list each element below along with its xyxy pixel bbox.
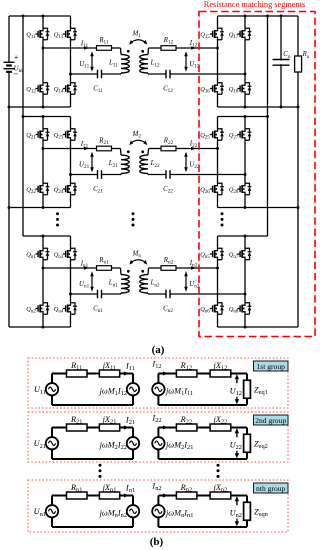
svg-text:Mn: Mn <box>132 250 142 259</box>
svg-text:Ln2: Ln2 <box>150 280 160 289</box>
svg-text:U11: U11 <box>34 385 46 396</box>
svg-text:nth group: nth group <box>256 484 286 493</box>
svg-text:U11: U11 <box>79 61 89 70</box>
svg-text:C21: C21 <box>93 186 103 195</box>
svg-text:Cn2: Cn2 <box>163 306 173 315</box>
svg-text:In2: In2 <box>151 482 161 493</box>
svg-text:Qn7: Qn7 <box>229 251 239 260</box>
svg-text:Q12: Q12 <box>26 86 36 95</box>
svg-text:I21: I21 <box>125 416 135 427</box>
svg-text:Zeqn: Zeqn <box>254 507 269 518</box>
svg-text:+: + <box>14 53 18 62</box>
svg-text:2nd group: 2nd group <box>255 416 286 425</box>
svg-text:Un2: Un2 <box>230 508 242 519</box>
svg-text:(b): (b) <box>150 536 164 548</box>
svg-text:Rn2: Rn2 <box>163 257 174 266</box>
svg-text:Co: Co <box>283 51 291 60</box>
svg-text:L11: L11 <box>108 60 118 69</box>
svg-text:M1: M1 <box>132 30 142 39</box>
svg-text:Q13: Q13 <box>54 31 64 40</box>
svg-text:In1: In1 <box>125 484 135 495</box>
svg-text:M2: M2 <box>132 131 142 140</box>
svg-text:Q26: Q26 <box>200 186 210 195</box>
svg-text:jωM2I21: jωM2I21 <box>165 440 193 451</box>
svg-text:jωM2I22: jωM2I22 <box>99 440 127 451</box>
svg-text:L12: L12 <box>150 60 160 69</box>
svg-text:U21: U21 <box>34 439 46 450</box>
svg-text:U21: U21 <box>79 162 90 171</box>
svg-text:I11: I11 <box>125 362 135 373</box>
svg-text:Q25: Q25 <box>200 132 210 141</box>
svg-text:jωMnIn2: jωMnIn2 <box>99 508 127 519</box>
svg-text:Qn8: Qn8 <box>229 306 239 315</box>
svg-text:U12: U12 <box>230 386 242 397</box>
svg-text:L22: L22 <box>150 160 160 169</box>
svg-text:R22: R22 <box>163 138 174 147</box>
svg-text:I12: I12 <box>151 360 161 371</box>
svg-text:Q14: Q14 <box>54 86 64 95</box>
svg-text:Q16: Q16 <box>200 86 210 95</box>
svg-text:Q22: Q22 <box>26 186 36 195</box>
svg-text:Rn1: Rn1 <box>98 257 109 266</box>
svg-text:Q18: Q18 <box>229 86 239 95</box>
svg-text:Q17: Q17 <box>229 31 239 40</box>
svg-text:Q27: Q27 <box>229 132 239 141</box>
svg-text:Q24: Q24 <box>54 186 64 195</box>
svg-text:Qn3: Qn3 <box>54 251 64 260</box>
svg-text:C11: C11 <box>93 86 103 95</box>
svg-text:Q11: Q11 <box>26 31 36 40</box>
svg-text:Zeq2: Zeq2 <box>254 439 268 450</box>
svg-text:jωM1I12: jωM1I12 <box>99 386 127 397</box>
svg-text:Resistance matching segments: Resistance matching segments <box>204 0 305 9</box>
svg-text:jωM1I11: jωM1I11 <box>165 386 193 397</box>
svg-text:Ro: Ro <box>302 51 310 60</box>
svg-text:Zeq1: Zeq1 <box>254 385 268 396</box>
svg-text:R12: R12 <box>163 37 174 46</box>
svg-text:Qn5: Qn5 <box>200 251 210 260</box>
svg-text:Cn1: Cn1 <box>93 306 103 315</box>
svg-text:U22: U22 <box>230 440 242 451</box>
svg-text:Qn4: Qn4 <box>54 306 64 315</box>
svg-text:R11: R11 <box>98 37 109 46</box>
svg-text:Qn2: Qn2 <box>26 306 36 315</box>
svg-text:Q23: Q23 <box>54 132 64 141</box>
svg-text:Un1: Un1 <box>79 281 90 290</box>
svg-text:Qn1: Qn1 <box>26 251 36 260</box>
svg-text:Q21: Q21 <box>26 132 36 141</box>
svg-text:C12: C12 <box>163 86 173 95</box>
svg-text:Qn6: Qn6 <box>200 306 210 315</box>
svg-text:(a): (a) <box>152 344 165 356</box>
svg-text:I22: I22 <box>151 414 161 425</box>
svg-text:L21: L21 <box>108 160 118 169</box>
svg-text:Ln1: Ln1 <box>108 280 118 289</box>
svg-text:Un1: Un1 <box>34 507 46 518</box>
svg-text:Q28: Q28 <box>229 186 239 195</box>
svg-text:Q15: Q15 <box>200 31 210 40</box>
svg-text:1st group: 1st group <box>256 362 285 371</box>
svg-text:C22: C22 <box>163 186 173 195</box>
svg-text:jωMnIn1: jωMnIn1 <box>165 508 193 519</box>
svg-text:R21: R21 <box>98 138 109 147</box>
